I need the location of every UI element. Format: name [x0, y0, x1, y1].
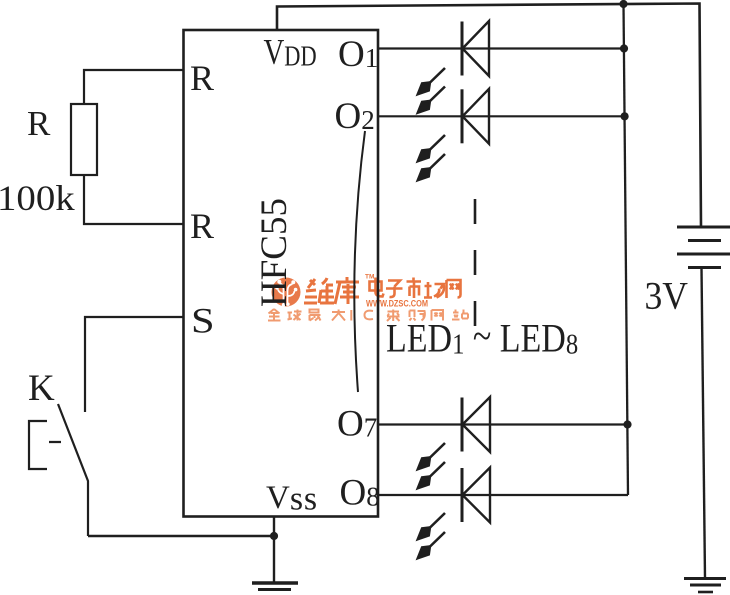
pin label S [191, 300, 215, 340]
resistor value 100k [0, 179, 75, 218]
LED2 [462, 89, 489, 144]
svg-text:LED1 ~ LED8: LED1 ~ LED8 [386, 315, 578, 361]
svg-text:VDD: VDD [264, 33, 317, 73]
junction dot O2 row [621, 112, 629, 120]
wire resistor to R pin bottom [84, 175, 184, 224]
svg-text:S: S [191, 300, 215, 340]
watermark circle icon [272, 278, 301, 307]
wire Vss stem to ground [273, 517, 275, 584]
LED8 [462, 468, 490, 523]
battery B1 plates [677, 227, 730, 268]
svg-text:Vss: Vss [266, 480, 318, 518]
svg-text:K: K [28, 368, 55, 409]
wire LED common anode vertical [624, 4, 629, 495]
junction dot O1 row [620, 44, 628, 52]
wire battery - down right side [702, 268, 706, 578]
svg-text:100k: 100k [0, 179, 75, 218]
svg-text:O2: O2 [335, 96, 375, 137]
watermark text WWW.DZSC.COM [366, 298, 428, 309]
ground at battery negative [684, 579, 726, 593]
resistor R 100k body [71, 104, 97, 175]
svg-text:TM: TM [365, 274, 374, 281]
ground under Vss node [252, 583, 298, 590]
LED8 light arrows [418, 513, 446, 540]
switch K blade [58, 404, 88, 536]
wire S pin to switch [85, 317, 184, 412]
LED7 [462, 397, 490, 452]
switch K pushbutton bracket [29, 421, 61, 469]
wire O2 row [379, 115, 625, 117]
svg-text:R: R [190, 58, 214, 98]
wire VDD stub and top rail to battery + [277, 4, 701, 228]
junction dot O7 row [623, 420, 631, 428]
watermark text 库 (drawn strokes) [335, 277, 359, 304]
wire O8 row [379, 494, 629, 496]
svg-text:R: R [190, 206, 214, 246]
brace arc for omitted outputs O3-O6 [354, 131, 365, 392]
wire switch to ground node [88, 535, 274, 537]
ellipsis dashed line between LED2 and LED7 [474, 199, 477, 326]
LED1 [462, 21, 489, 76]
pin label VDD [264, 33, 317, 73]
wire R pin top to resistor [84, 70, 184, 104]
svg-text:R: R [27, 104, 51, 143]
svg-text:WWW.DZSC.COM: WWW.DZSC.COM [366, 298, 428, 309]
wire O1 row [379, 47, 625, 49]
watermark text 电子市场网 (drawn strokes) [370, 278, 461, 299]
IC U1 HFC55 body [184, 30, 379, 517]
svg-text:O7: O7 [337, 404, 377, 445]
svg-text:3V: 3V [645, 275, 688, 318]
wire O7 row [379, 423, 628, 425]
LED7 light arrows [418, 443, 446, 470]
watermark slogan 全球最大IC采购网站 (drawn strokes) [268, 309, 468, 321]
watermark text 维 (drawn strokes) [304, 278, 334, 303]
battery label 3V [645, 275, 688, 318]
LED2 light arrows [418, 135, 446, 162]
watermark logo 维库电子市场网 (dzsc.com) [268, 274, 468, 322]
junction dot ground node [270, 532, 278, 540]
svg-text:O8: O8 [340, 473, 380, 514]
LED1 light arrows [418, 68, 446, 95]
label LED1 ~ LED8 [386, 315, 578, 361]
svg-text:HFC55: HFC55 [254, 198, 295, 307]
junction dot top rail [619, 0, 627, 8]
svg-text:O1: O1 [338, 34, 378, 75]
